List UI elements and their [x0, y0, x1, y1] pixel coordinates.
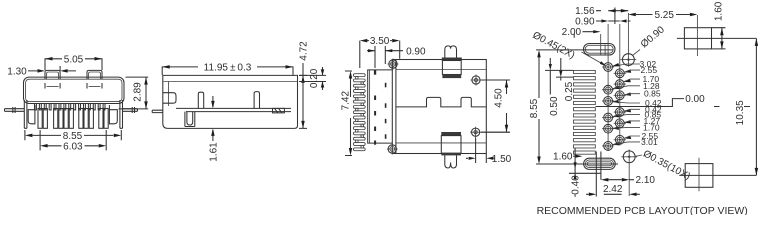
oval pad top	[584, 44, 616, 56]
housing contacts column B	[385, 83, 387, 139]
mounting flange right	[109, 105, 117, 124]
dim 0.20	[299, 67, 326, 90]
dim 6.03	[40, 130, 106, 150]
shield post right	[120, 100, 123, 128]
svg-text:1.60: 1.60	[553, 152, 573, 163]
big hole top	[623, 54, 635, 66]
lower pin row (11 long pins)	[38, 109, 108, 129]
svg-text:3.01: 3.01	[641, 137, 658, 147]
fixing lug right	[273, 108, 285, 113]
svg-text:1.30: 1.30	[7, 66, 27, 77]
dim 0.90 (view3)	[367, 46, 403, 68]
shield leg 1	[198, 92, 203, 108]
dim 10.35	[755, 38, 757, 175]
dim 1.61	[212, 96, 214, 141]
foot inner slot	[187, 112, 193, 125]
shield rectangle outline	[392, 60, 486, 154]
pad comb (14 SMT pads)	[574, 70, 596, 154]
svg-text:10.35: 10.35	[735, 100, 746, 125]
shield leg 2	[254, 92, 259, 109]
dim 2.89	[119, 77, 149, 109]
solder lead right	[123, 107, 138, 113]
stitch hole bottom	[388, 145, 396, 153]
housing contacts column A (black pads)	[374, 70, 376, 145]
connector body shell outer	[24, 77, 125, 103]
dim 1.60 right	[712, 28, 726, 49]
dim 11.95 +/- 0.3	[162, 67, 293, 75]
oval pad bottom	[584, 158, 616, 169]
inner left line	[168, 82, 170, 107]
datum line 0.00	[596, 99, 751, 107]
svg-text:4.72: 4.72	[299, 41, 310, 61]
svg-text:0.50: 0.50	[549, 96, 560, 116]
solder lead left stub	[152, 110, 163, 112]
svg-text:8.55: 8.55	[529, 98, 540, 118]
svg-text:2.10: 2.10	[636, 175, 656, 186]
stack labels	[640, 59, 662, 147]
bottom right rectangle pad	[685, 164, 713, 188]
shield post left	[24, 100, 27, 128]
shield seam with castellations	[396, 97, 486, 107]
connector body shell inner	[26, 79, 122, 101]
through-board foot	[185, 112, 195, 127]
left latch notch	[163, 93, 176, 104]
mounting flange left	[28, 105, 35, 124]
board hole bottom right	[472, 128, 480, 136]
small holes left column	[604, 63, 613, 151]
svg-text:1.50: 1.50	[492, 154, 512, 165]
hole crosshair ticks	[602, 67, 626, 146]
dim 0.50	[545, 58, 573, 95]
inner top line	[164, 81, 298, 83]
svg-text:0.90: 0.90	[575, 17, 595, 28]
svg-text:2.00: 2.00	[562, 27, 582, 38]
dim 5.05	[45, 59, 102, 70]
svg-text:7.42: 7.42	[340, 91, 351, 111]
svg-text:2.42: 2.42	[603, 184, 623, 195]
upper pin row (15 short pins)	[35, 104, 106, 110]
body outline	[163, 75, 298, 128]
svg-text:1.60: 1.60	[713, 1, 724, 21]
svg-text:0.90: 0.90	[406, 46, 426, 57]
solder lead left	[5, 107, 25, 113]
dim 1.50	[466, 138, 495, 163]
dim 7.42	[345, 71, 352, 156]
svg-text:0.40: 0.40	[571, 175, 582, 195]
svg-text:3.50: 3.50	[370, 36, 390, 47]
latch tab right	[87, 70, 102, 79]
stitch hole top	[389, 60, 397, 68]
contact comb (15 tails)	[353, 74, 365, 151]
shield left edge double line	[395, 60, 397, 154]
big hole bottom	[623, 151, 635, 163]
svg-text:1.61: 1.61	[208, 142, 219, 162]
housing body	[368, 70, 393, 143]
dim 8.55	[25, 130, 121, 140]
svg-text:6.03: 6.03	[63, 141, 83, 152]
dim 3.50	[360, 41, 400, 68]
dim 0.40	[569, 173, 601, 197]
shield inner fold lines	[396, 70, 486, 143]
dim 2.10	[601, 152, 634, 180]
dim 0.25	[556, 58, 573, 81]
hold-down tab bottom	[441, 132, 461, 136]
svg-text:0.20: 0.20	[309, 68, 320, 88]
svg-text:0.00: 0.00	[685, 94, 705, 105]
hold-down tab top	[445, 46, 457, 60]
dim 8.55 left	[536, 50, 618, 164]
top right rectangle pad	[684, 28, 711, 49]
hole column centerlines	[608, 13, 629, 196]
svg-text:5.05: 5.05	[64, 54, 84, 65]
svg-text:RECOMMENDED PCB LAYOUT(TOP VIE: RECOMMENDED PCB LAYOUT(TOP VIEW)	[537, 205, 748, 215]
dim 4.72	[299, 63, 307, 128]
board hole top right	[472, 76, 480, 84]
base shelf lines	[176, 108, 291, 111]
dim 2.42	[586, 152, 640, 197]
leader lines to labels	[612, 63, 640, 145]
svg-text:4.50: 4.50	[494, 88, 505, 108]
svg-text:8.55: 8.55	[63, 131, 83, 142]
svg-text:11.95 ± 0.3: 11.95 ± 0.3	[204, 62, 252, 73]
svg-text:0.25: 0.25	[564, 81, 575, 101]
svg-text:5.25: 5.25	[654, 10, 674, 21]
svg-text:2.89: 2.89	[133, 82, 144, 102]
latch tab left	[45, 70, 60, 79]
dim 4.50	[481, 80, 510, 132]
housing inner left edge	[369, 70, 371, 143]
small holes right column	[615, 69, 624, 144]
